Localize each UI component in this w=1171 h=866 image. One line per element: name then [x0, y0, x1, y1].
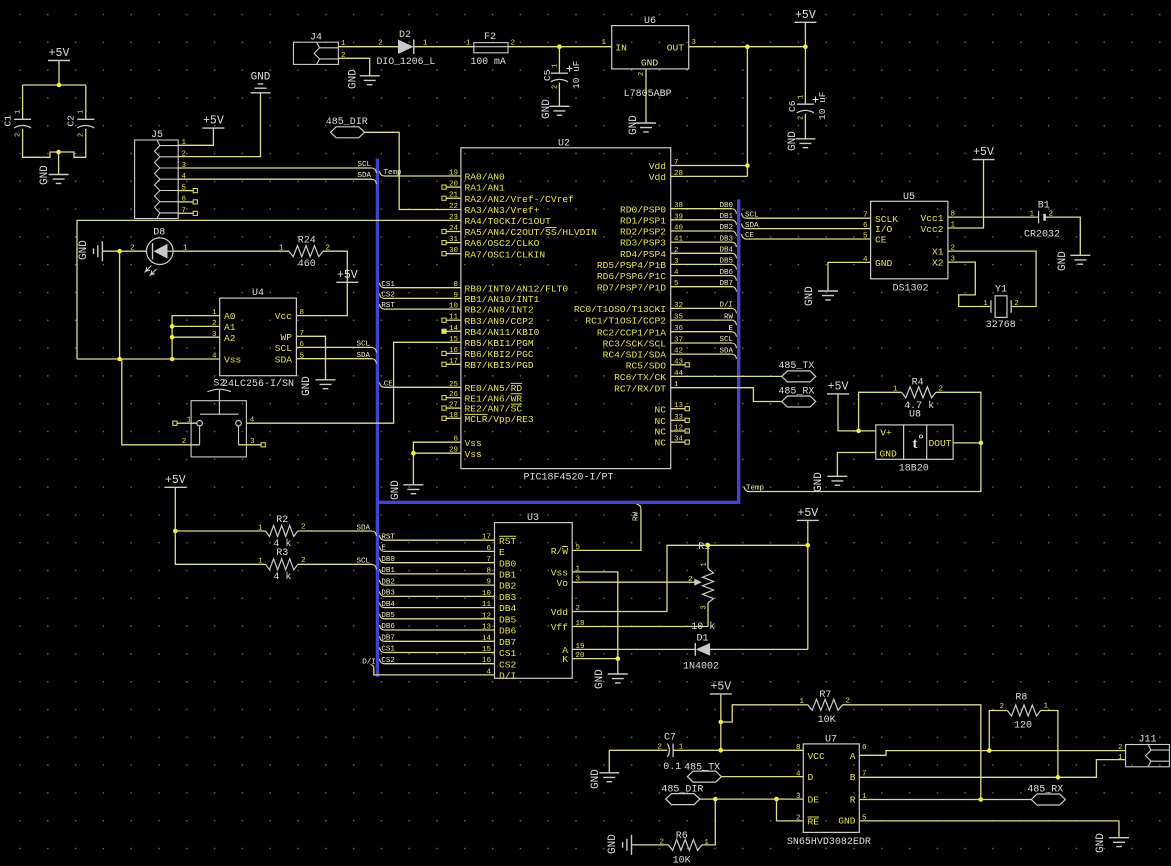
svg-text:2: 2: [552, 85, 560, 89]
svg-text:DIO_1206_L: DIO_1206_L: [377, 56, 436, 67]
lcd U3 body: [495, 523, 573, 679]
svg-text:10K: 10K: [673, 856, 691, 866]
wire to +5V top right: [804, 22, 806, 46]
svg-text:485_RX: 485_RX: [1027, 785, 1063, 796]
wire D/I to U3: [371, 665, 374, 669]
junction trimmer top: [706, 543, 711, 548]
svg-text:t: t: [913, 436, 918, 452]
svg-text:RB1/AN10/INT1: RB1/AN10/INT1: [465, 294, 540, 305]
svg-text:SCL: SCL: [357, 161, 371, 169]
svg-text:RB7/KBI3/PGD: RB7/KBI3/PGD: [465, 360, 534, 371]
svg-text:CS2: CS2: [499, 659, 517, 670]
svg-text:GND: GND: [787, 131, 799, 151]
svg-text:22: 22: [449, 203, 458, 211]
svg-text:2: 2: [1118, 744, 1123, 752]
svg-text:MCLR/Vpp/RE3: MCLR/Vpp/RE3: [465, 414, 534, 425]
svg-text:DS1302: DS1302: [893, 284, 929, 295]
svg-text:+5V: +5V: [337, 269, 358, 282]
ground (C6): [795, 139, 815, 148]
svg-text:CS1: CS1: [381, 646, 395, 654]
svg-text:23: 23: [449, 214, 459, 222]
junction U2 Vdd drop: [745, 44, 750, 49]
junction R7 tap: [719, 720, 724, 725]
svg-text:2: 2: [1014, 300, 1019, 308]
wire RST to RB2: [380, 304, 385, 309]
junction DE/RE: [774, 797, 779, 802]
svg-text:DB6: DB6: [381, 623, 395, 631]
svg-text:RA4/T0CKI/C1OUT: RA4/T0CKI/C1OUT: [465, 216, 552, 227]
wire U5 GND pin: [828, 262, 871, 291]
capacitor C2: [77, 118, 94, 120]
svg-text:IN: IN: [615, 43, 627, 54]
svg-text:RW: RW: [724, 313, 734, 321]
svg-text:NC: NC: [654, 438, 666, 449]
svg-text:RC4/SDI/SDA: RC4/SDI/SDA: [603, 350, 667, 361]
bus entry DB5 (U2): [732, 264, 737, 269]
wire U4 WP to ground: [296, 336, 325, 380]
capacitor C6: [797, 103, 814, 105]
svg-text:RA1/AN1: RA1/AN1: [465, 183, 506, 194]
svg-text:Vss: Vss: [465, 438, 482, 449]
J5 pin 6 no-connect: [178, 201, 193, 203]
wire E to U3: [380, 546, 385, 551]
svg-text:GND: GND: [594, 669, 606, 689]
wire +5V to J5.1: [178, 128, 213, 145]
junction DE/R6: [713, 797, 718, 802]
svg-text:RA5/AN4/C2OUT/SS/HLVDIN: RA5/AN4/C2OUT/SS/HLVDIN: [465, 227, 597, 238]
svg-text:GND: GND: [875, 258, 893, 269]
wire GND stem (C1/C2): [58, 152, 60, 175]
svg-text:Y1: Y1: [995, 284, 1007, 295]
svg-text:485_DIR: 485_DIR: [326, 117, 368, 128]
wire U4 SCL: [296, 346, 371, 348]
svg-text:GND: GND: [880, 448, 898, 459]
svg-text:SCL: SCL: [356, 341, 370, 349]
svg-text:J5: J5: [151, 130, 163, 141]
wire SCL to U5 SCLK: [742, 213, 747, 218]
svg-text:2: 2: [638, 72, 646, 76]
bus entry SCL (U2): [732, 343, 737, 348]
bus entry SDA (J5): [372, 179, 377, 184]
svg-text:CS1: CS1: [381, 281, 395, 289]
svg-text:A2: A2: [224, 333, 236, 344]
bus entry SCL (R3): [372, 564, 377, 569]
bus entry DB3 (U2): [732, 242, 737, 247]
svg-text:E: E: [728, 325, 733, 333]
svg-text:1: 1: [552, 64, 560, 68]
svg-text:+5V: +5V: [710, 680, 731, 693]
svg-text:U7: U7: [825, 734, 837, 745]
wire F2 to U6 IN: [508, 46, 612, 48]
svg-text:V+: V+: [880, 427, 892, 438]
wire +5V stem to R2: [175, 487, 265, 531]
wire Temp net: [749, 443, 981, 492]
svg-text:R: R: [850, 795, 856, 806]
svg-text:RC7/RX/DT: RC7/RX/DT: [614, 383, 666, 394]
junction A1: [170, 324, 175, 329]
svg-text:Vcc: Vcc: [275, 311, 293, 322]
svg-text:2: 2: [182, 438, 187, 446]
svg-text:6: 6: [862, 744, 867, 752]
bus entry DB2 (U2): [732, 231, 737, 236]
wire A to D1: [572, 648, 695, 650]
svg-text:RB0/INT0/AN12/FLT0: RB0/INT0/AN12/FLT0: [465, 283, 569, 294]
wire C5 to ground: [558, 83, 560, 107]
svg-text:0.1: 0.1: [663, 762, 681, 773]
wire R2 to SDA bus: [298, 530, 372, 532]
bus entry Temp (U8): [744, 487, 749, 492]
svg-text:U4: U4: [252, 288, 264, 299]
svg-text:SDA: SDA: [719, 347, 733, 355]
wire C1/C2 top rail: [23, 84, 86, 86]
svg-text:4: 4: [250, 416, 255, 424]
wire U4 address bus: [172, 316, 220, 359]
wire RST to U3: [380, 535, 385, 540]
svg-text:2: 2: [688, 576, 693, 584]
ground (U8): [827, 476, 847, 485]
svg-text:460: 460: [298, 259, 316, 270]
wire DB6 to U3: [380, 625, 385, 630]
battery B1: [1038, 211, 1040, 224]
svg-text:Temp: Temp: [384, 169, 402, 177]
svg-text:CE: CE: [875, 235, 887, 246]
wire U8 DOUT: [953, 442, 981, 444]
svg-text:GND: GND: [78, 240, 90, 260]
svg-text:X2: X2: [932, 258, 944, 269]
svg-text:120: 120: [1014, 721, 1032, 732]
svg-text:GND: GND: [390, 480, 402, 500]
svg-text:U6: U6: [644, 16, 656, 27]
wire SDA to U5 I/O: [742, 224, 747, 229]
bus entry E (U2): [732, 332, 737, 337]
svg-text:4 k: 4 k: [273, 571, 291, 583]
svg-text:DB7: DB7: [719, 280, 733, 288]
svg-text:PIC18F4520-I/PT: PIC18F4520-I/PT: [524, 472, 614, 484]
svg-text:DB2: DB2: [381, 578, 395, 586]
bus entry DB1 (U2): [732, 220, 737, 225]
svg-text:RC1/T1OSI/CCP2: RC1/T1OSI/CCP2: [585, 316, 666, 327]
svg-text:1: 1: [1118, 754, 1123, 762]
svg-text:RD3/PSP3: RD3/PSP3: [620, 238, 666, 249]
junction A2: [170, 335, 175, 340]
fuse F2: [474, 43, 508, 53]
ground (U7): [1109, 838, 1129, 847]
port 485_TX (U2): [782, 371, 816, 382]
connector J5: [135, 140, 179, 219]
svg-text:GND: GND: [628, 115, 640, 135]
power +5V (top right): [794, 21, 816, 23]
svg-text:R24: R24: [298, 236, 316, 247]
svg-text:GND: GND: [1095, 833, 1107, 853]
svg-text:DB0: DB0: [499, 558, 517, 569]
svg-text:U2: U2: [558, 139, 570, 150]
wire K to ground: [572, 658, 618, 660]
svg-text:8: 8: [796, 744, 801, 752]
ground (C1/C2): [49, 175, 69, 184]
wire 485_DIR to DE: [700, 798, 804, 800]
svg-text:RE1/AN6/WR: RE1/AN6/WR: [465, 393, 523, 404]
junction trimmer/+5V: [806, 543, 811, 548]
svg-text:2: 2: [130, 245, 135, 253]
wire +5V to C1/C2 top: [58, 61, 60, 86]
wire C5 stem: [558, 47, 560, 73]
wire RA4 long route: [77, 220, 461, 359]
svg-text:RB3/AN9/CCP2: RB3/AN9/CCP2: [465, 316, 534, 327]
svg-text:D2: D2: [399, 30, 411, 41]
svg-text:SN65HVD3082EDR: SN65HVD3082EDR: [787, 837, 871, 848]
svg-text:DB3: DB3: [499, 592, 517, 603]
svg-text:R6: R6: [676, 831, 688, 842]
svg-text:U5: U5: [903, 192, 915, 203]
capacitor C7: [667, 744, 669, 758]
svg-text:8: 8: [300, 309, 305, 317]
svg-text:1: 1: [258, 524, 263, 532]
wire Vo to trimmer wiper: [572, 581, 699, 583]
wire Vff to trimmer bottom: [572, 626, 708, 628]
svg-text:K: K: [562, 654, 568, 665]
rtc U5: [871, 201, 948, 278]
svg-text:DB0: DB0: [719, 202, 733, 210]
svg-text:1: 1: [798, 95, 806, 99]
svg-text:SCL: SCL: [745, 211, 759, 219]
svg-text:SDA: SDA: [356, 352, 370, 360]
svg-text:D1: D1: [697, 633, 709, 644]
svg-text:SCLK: SCLK: [875, 214, 898, 225]
svg-text:A1: A1: [224, 322, 236, 333]
junction R2/R3: [173, 529, 178, 534]
svg-text:RB6/KBI2/PGC: RB6/KBI2/PGC: [465, 349, 534, 360]
svg-text:15: 15: [449, 336, 459, 344]
svg-text:1: 1: [78, 110, 86, 114]
resistor R6: [668, 839, 701, 850]
svg-text:GND: GND: [590, 769, 602, 789]
svg-text:2: 2: [796, 815, 801, 823]
ground (C7): [599, 773, 619, 782]
wire C7 ground leg: [609, 750, 667, 773]
wire DB4 to U3: [380, 603, 385, 608]
svg-text:D/I: D/I: [719, 302, 733, 310]
connector J4: [294, 42, 339, 64]
svg-text:R3: R3: [276, 548, 288, 559]
wire R8 pin1 leg: [1041, 711, 1058, 778]
svg-text:Vdd: Vdd: [551, 607, 568, 618]
resistor R4: [902, 387, 936, 398]
wire R7 to R net: [842, 705, 980, 800]
svg-text:CE: CE: [745, 232, 755, 240]
regulator U6: [612, 26, 689, 69]
svg-text:U8: U8: [909, 410, 921, 421]
svg-text:L7805ABP: L7805ABP: [624, 89, 672, 100]
ground (B1): [1070, 255, 1090, 264]
svg-text:Vdd: Vdd: [649, 172, 666, 183]
wire +5V to Vcc2: [948, 160, 984, 228]
svg-text:CS2: CS2: [381, 292, 395, 300]
svg-text:J4: J4: [310, 33, 322, 44]
svg-text:Vff: Vff: [551, 622, 569, 633]
svg-text:C6: C6: [787, 100, 798, 112]
port 485_RX (U7): [1031, 794, 1065, 805]
diode D2: [398, 40, 414, 55]
wire Vdd to +5V rail: [572, 545, 708, 611]
svg-text:485_TX: 485_TX: [684, 763, 720, 774]
svg-text:RD7/PSP7/P1D: RD7/PSP7/P1D: [597, 282, 666, 293]
wire R6 riser: [702, 799, 716, 845]
wire D8 to R24: [173, 250, 289, 252]
wire DB1 to U3: [380, 569, 385, 574]
svg-text:3: 3: [700, 605, 708, 609]
svg-text:1: 1: [258, 558, 263, 566]
connector J11: [1126, 745, 1170, 767]
svg-text:Vdd: Vdd: [649, 161, 666, 172]
bus entry DB0 (U2): [732, 209, 737, 214]
wire Vss to ground riser: [572, 572, 618, 659]
resistor R3: [266, 559, 298, 570]
svg-text:SDA: SDA: [275, 354, 293, 365]
svg-text:3: 3: [692, 39, 697, 47]
svg-text:GND: GND: [838, 816, 856, 827]
bus entry SDA (U4): [372, 359, 377, 364]
ground (U2 Vss): [403, 485, 423, 494]
ground (U6): [636, 123, 656, 132]
wire 485_DIR to U2 RA3: [365, 132, 461, 209]
svg-text:U3: U3: [527, 513, 539, 524]
svg-text:D/I: D/I: [499, 671, 516, 682]
wire 485_TX to D: [721, 776, 803, 778]
wire R3 branch: [175, 531, 265, 564]
svg-text:2: 2: [999, 703, 1004, 711]
svg-text:RB5/KBI1/PGM: RB5/KBI1/PGM: [465, 338, 534, 349]
svg-text:C5: C5: [542, 69, 553, 81]
svg-text:RA0/AN0: RA0/AN0: [465, 172, 506, 183]
svg-text:CS2: CS2: [381, 657, 395, 665]
eeprom U4: [220, 298, 297, 376]
wire U7 B to J11.1: [859, 760, 1125, 778]
bus entry SCL (J5): [372, 168, 377, 173]
svg-text:D8: D8: [153, 228, 165, 239]
svg-text:RB2/AN8/INT2: RB2/AN8/INT2: [465, 305, 534, 316]
wire R4 left leg: [859, 392, 902, 431]
svg-text:RC6/TX/CK: RC6/TX/CK: [614, 372, 666, 383]
svg-text:+5V: +5V: [203, 115, 224, 128]
svg-text:SDA: SDA: [357, 172, 371, 180]
wire U7 R to 485_RX: [859, 799, 1031, 801]
power +5V (U7): [710, 693, 732, 695]
svg-text:GND: GND: [541, 99, 553, 119]
wire U7 GND pin: [859, 821, 1119, 838]
wire X2 to Y1: [948, 262, 990, 306]
svg-text:DB3: DB3: [719, 235, 733, 243]
svg-text:NC: NC: [654, 427, 666, 438]
svg-text:1: 1: [601, 39, 606, 47]
bus entry RW (U2): [732, 320, 737, 325]
svg-text:1: 1: [466, 40, 471, 48]
svg-text:C2: C2: [66, 115, 77, 127]
svg-text:SCL: SCL: [719, 336, 733, 344]
svg-text:GND: GND: [804, 286, 816, 306]
wire DB7 to U3: [380, 636, 385, 641]
svg-text:RD6/PSP6/P1C: RD6/PSP6/P1C: [597, 271, 666, 282]
junction Vss/D8 riser: [117, 357, 122, 362]
svg-text:2: 2: [15, 133, 23, 137]
port 485_DIR (U7): [666, 794, 700, 805]
S2 pin 2 wire to ground rail: [122, 359, 200, 445]
svg-text:Vss: Vss: [224, 355, 241, 366]
svg-text:OUT: OUT: [667, 43, 685, 54]
wire Vcc1 to B1: [948, 216, 1038, 218]
svg-text:RA3/AN3/Vref+: RA3/AN3/Vref+: [465, 205, 540, 216]
svg-text:GND: GND: [607, 834, 619, 854]
svg-text:2: 2: [78, 133, 86, 137]
wire U8 GND pin: [837, 453, 875, 477]
svg-text:1: 1: [1044, 703, 1049, 711]
ground (U3): [608, 674, 628, 683]
svg-text:1: 1: [893, 385, 898, 393]
svg-text:RC5/SDO: RC5/SDO: [626, 360, 667, 371]
svg-text:C1: C1: [3, 115, 14, 127]
svg-text:Vo: Vo: [556, 578, 568, 589]
svg-text:2: 2: [798, 116, 806, 120]
wire D2 to F2: [414, 46, 474, 48]
junction C5 tap: [557, 44, 562, 49]
svg-text:DB2: DB2: [499, 581, 517, 592]
wire U2 Vss pins to ground: [413, 442, 461, 485]
power +5V (U8): [827, 393, 849, 395]
svg-text:RD1/PSP1: RD1/PSP1: [620, 215, 666, 226]
junction at GND notch: [56, 150, 61, 155]
svg-text:3: 3: [250, 438, 255, 446]
junction Vss/K: [616, 656, 621, 661]
wire R6 to ground: [632, 844, 669, 846]
wire to U3 ground: [617, 659, 619, 674]
svg-text:GND: GND: [39, 165, 51, 185]
wire +5V to U4 Vcc: [296, 282, 347, 315]
svg-text:DB3: DB3: [381, 590, 395, 598]
svg-text:R/W: R/W: [551, 546, 569, 557]
wire gnd riser to Vss rail: [119, 251, 121, 359]
svg-text:RE0/AN5/RD: RE0/AN5/RD: [465, 383, 523, 394]
bus entry DB4 (U2): [732, 253, 737, 258]
svg-text:18B20: 18B20: [899, 464, 929, 475]
svg-text:RA7/OSC1/CLKIN: RA7/OSC1/CLKIN: [465, 249, 546, 260]
svg-text:RC0/T1OSO/T13CKI: RC0/T1OSO/T13CKI: [574, 304, 666, 315]
resistor R8: [1007, 705, 1040, 716]
svg-text:CR2032: CR2032: [1024, 229, 1060, 240]
ground (U4 WP): [316, 380, 336, 389]
svg-text:1: 1: [279, 245, 284, 253]
wire Vdd drop: [746, 47, 748, 177]
svg-text:DB2: DB2: [719, 224, 733, 232]
wire R4 right leg to DOUT: [936, 392, 981, 443]
port 485_TX (U7): [687, 771, 721, 782]
svg-text:R2: R2: [276, 515, 288, 526]
svg-text:1N4002: 1N4002: [683, 661, 719, 672]
wire DB0 to U3: [380, 558, 385, 563]
svg-text:485_DIR: 485_DIR: [661, 785, 703, 796]
svg-text:RA2/AN2/Vref-/CVref: RA2/AN2/Vref-/CVref: [465, 194, 575, 205]
svg-text:RE: RE: [808, 817, 820, 828]
svg-text:2: 2: [378, 40, 383, 48]
svg-text:SDA: SDA: [356, 524, 370, 532]
S2 pin 1 no-connect: [173, 421, 177, 425]
wire R8 pin2 leg: [989, 711, 1007, 751]
wire trimmer right rail to D1: [807, 545, 809, 649]
wire DB2 to U3: [380, 580, 385, 585]
junction R4/DOUT: [979, 441, 984, 446]
switch S2: [191, 401, 246, 457]
svg-text:RD5/PSP4/P1B: RD5/PSP4/P1B: [597, 260, 666, 271]
svg-text:1: 1: [187, 416, 192, 424]
junction B/R8: [1056, 775, 1061, 780]
